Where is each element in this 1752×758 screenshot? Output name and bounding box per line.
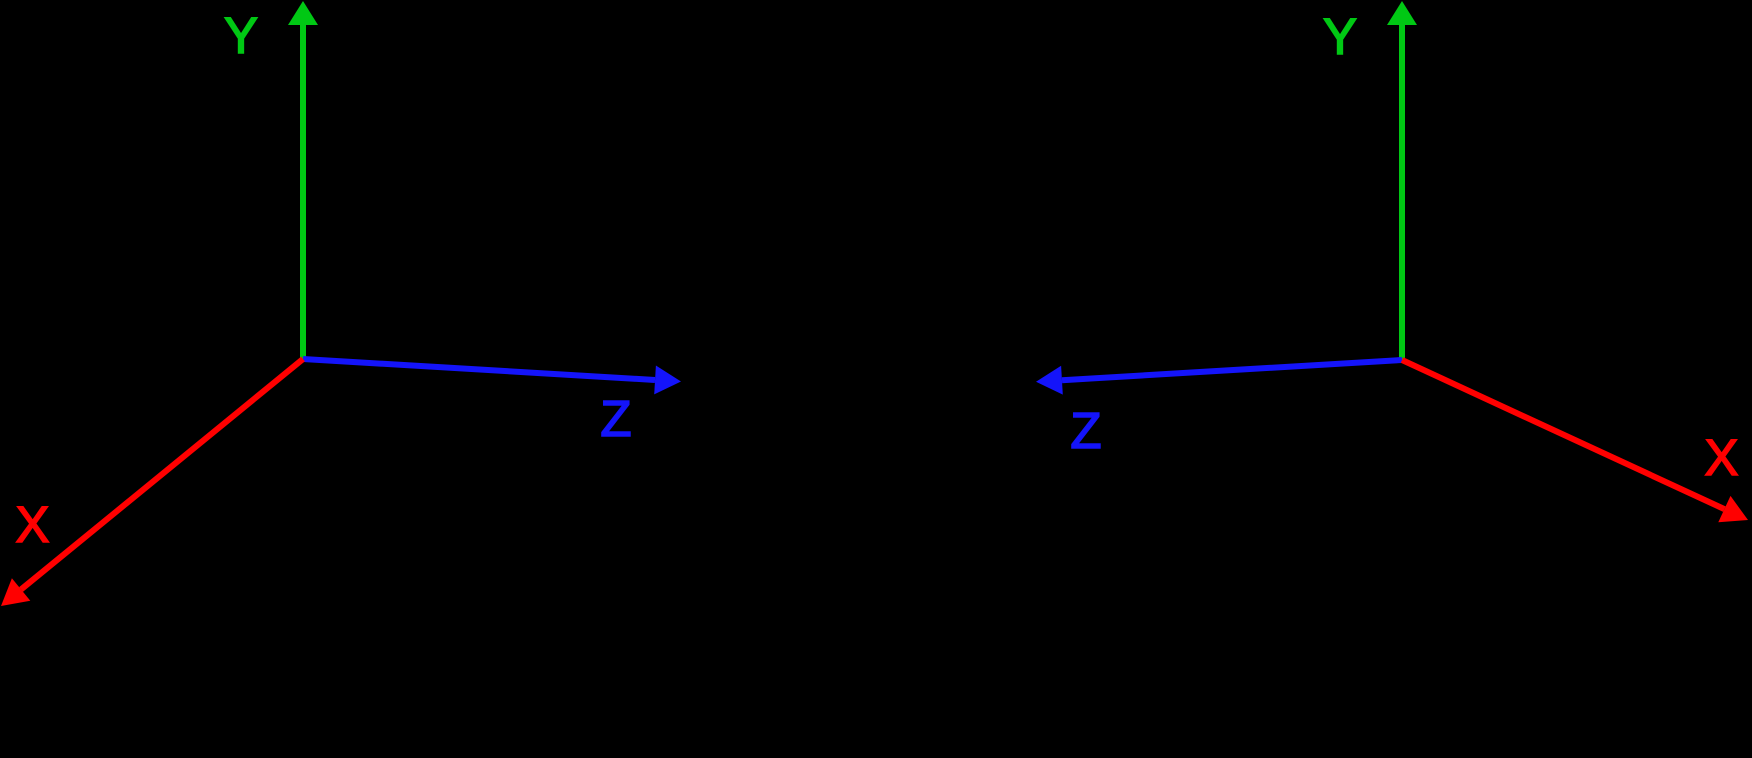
left Y axis shaft <box>300 25 306 359</box>
left X axis label <box>15 496 49 553</box>
svg-text:Z: Z <box>1070 402 1101 459</box>
left Z axis shaft <box>303 359 655 380</box>
right X axis arrowhead <box>1718 496 1748 522</box>
svg-text:Z: Z <box>600 390 631 447</box>
left X axis arrowhead <box>1 578 30 606</box>
right Z axis label <box>1070 402 1101 459</box>
right X axis label <box>1704 429 1738 486</box>
right Z axis arrowhead <box>1036 366 1063 395</box>
left Y axis label <box>224 7 258 64</box>
right X axis shaft <box>1402 360 1724 509</box>
right Z axis shaft <box>1062 360 1402 380</box>
svg-text:X: X <box>1704 429 1738 486</box>
svg-text:X: X <box>15 496 49 553</box>
left Z axis label <box>600 390 631 447</box>
right Y axis arrowhead <box>1387 1 1417 25</box>
svg-text:Y: Y <box>1323 8 1357 65</box>
left X axis shaft <box>21 359 303 590</box>
svg-text:Y: Y <box>224 7 258 64</box>
left Z axis arrowhead <box>654 366 681 395</box>
right Y axis label <box>1323 8 1357 65</box>
left Y axis arrowhead <box>288 1 318 25</box>
right Y axis shaft <box>1399 25 1405 360</box>
